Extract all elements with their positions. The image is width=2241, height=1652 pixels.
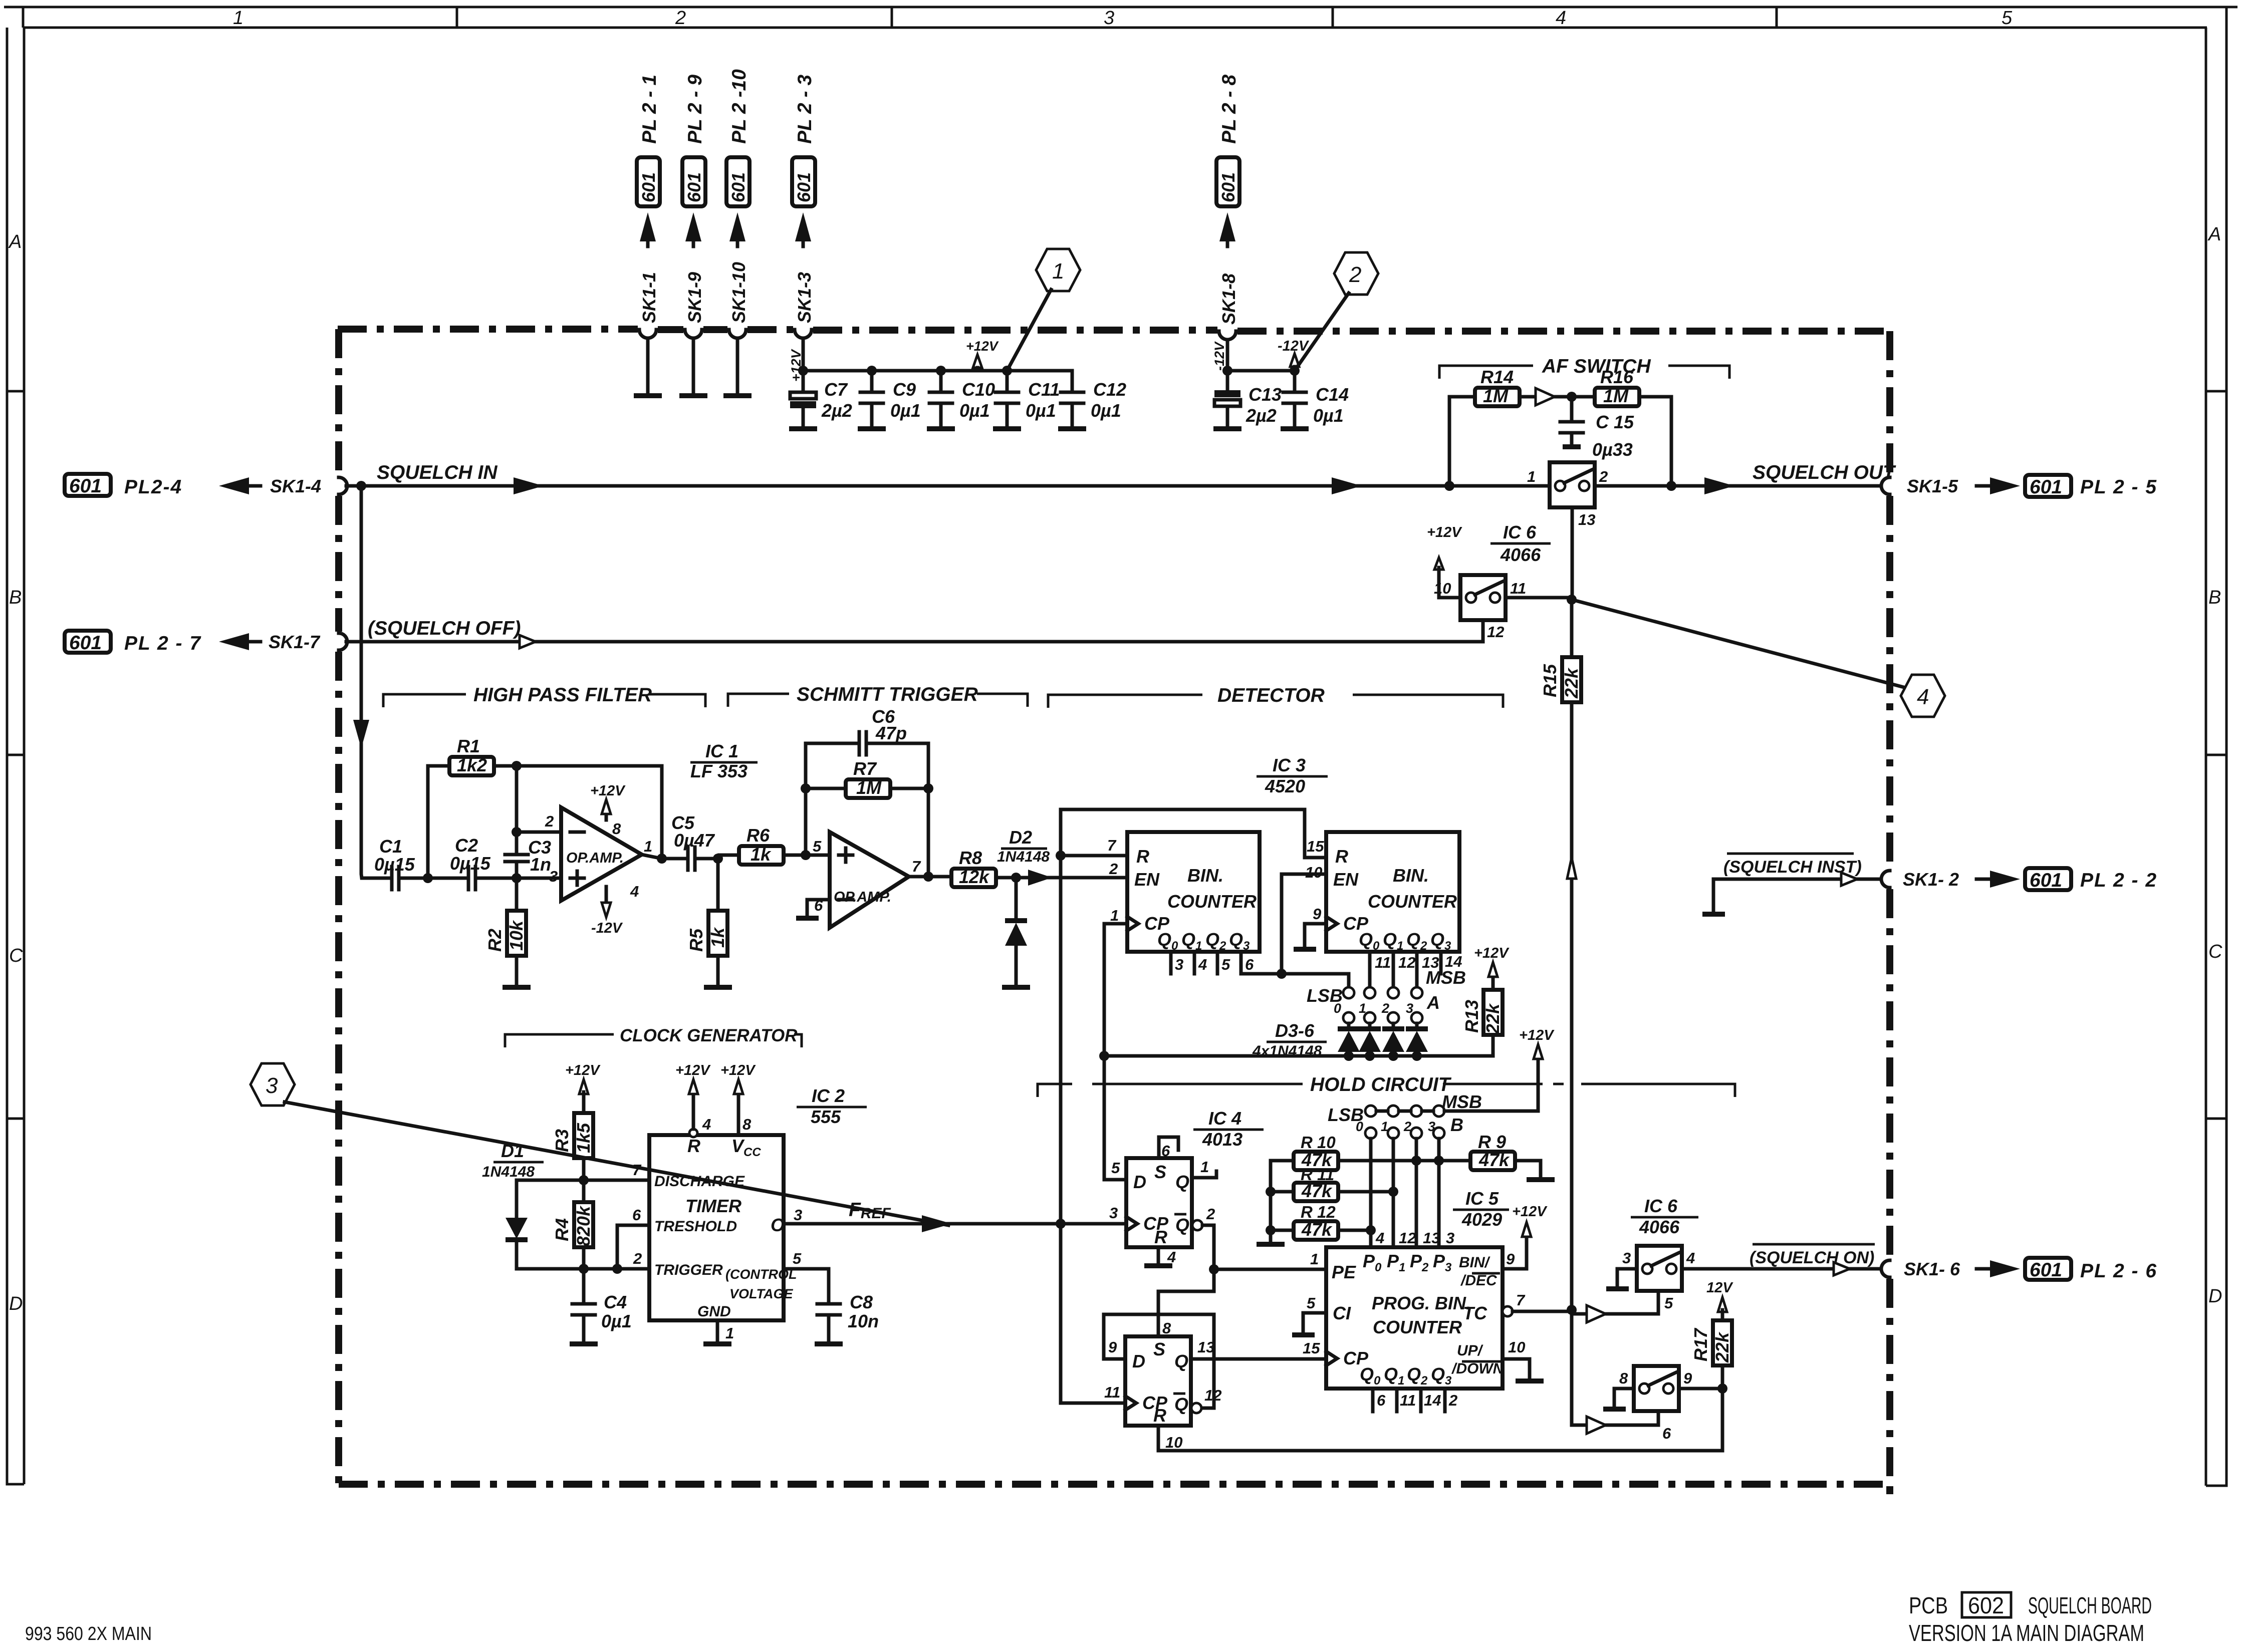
left row divider A/B: [7, 390, 24, 393]
svg-text:0µ1: 0µ1: [1091, 400, 1121, 421]
header divider col4: [1332, 7, 1334, 28]
wire R17 to pin9 node: [1721, 1365, 1724, 1389]
svg-text:R1: R1: [457, 736, 480, 756]
node schmitt +input: [801, 850, 811, 860]
svg-text:D2: D2: [1009, 827, 1032, 848]
wire pin7 to counter R: [1061, 854, 1127, 858]
arrow up PL2-8: [1219, 212, 1235, 241]
Q1 stub: [1192, 1171, 1216, 1178]
node D5 anode: [1388, 1051, 1398, 1061]
node C11 rail: [1002, 366, 1012, 376]
IC3b binary counter box: [1326, 832, 1459, 952]
svg-text:EN: EN: [1333, 869, 1359, 890]
svg-text:TRESHOLD: TRESHOLD: [654, 1218, 737, 1235]
analog switch IC6a box: [1550, 462, 1595, 507]
wire SK1-3 stub to +12V rail: [802, 338, 805, 371]
wire P3 vertical: [1437, 1139, 1441, 1247]
svg-text:SK1-8: SK1-8: [1218, 273, 1239, 325]
svg-text:4: 4: [1556, 8, 1566, 29]
connector SK1-7 bump: [339, 633, 347, 650]
svg-text:SQUELCH OUT: SQUELCH OUT: [1753, 462, 1896, 483]
ground C12: [1058, 426, 1086, 431]
resistor R9: [1470, 1152, 1515, 1170]
switch IC6c lever: [1651, 1253, 1679, 1266]
wire R7 leads: [806, 787, 928, 790]
board ref box 601 (PL2-7): [65, 631, 111, 653]
svg-text:3: 3: [1104, 8, 1114, 29]
svg-text:3: 3: [1622, 1249, 1631, 1267]
wire arrow to PL2-9: [692, 224, 695, 246]
node R7 right: [923, 783, 933, 793]
svg-text:IC 3: IC 3: [1273, 755, 1306, 775]
svg-text:SK1-7: SK1-7: [269, 632, 321, 652]
svg-text:4: 4: [630, 883, 639, 900]
svg-text:B: B: [9, 587, 22, 608]
node R pin7 branch: [1056, 851, 1066, 861]
svg-text:0µ1: 0µ1: [1026, 400, 1056, 421]
wire input node up to R1: [428, 766, 449, 878]
node trigger/treshold branch: [612, 1264, 622, 1274]
svg-text:0µ15: 0µ15: [450, 853, 491, 874]
ground SK1-10: [723, 393, 752, 398]
prog bin counter IC5 box: [1326, 1247, 1503, 1389]
buffer arrow (direction): [1536, 388, 1555, 405]
svg-text:4520: 4520: [1265, 776, 1305, 796]
power arrow +12V R3: [579, 1079, 588, 1094]
wire +input to opamp: [517, 877, 561, 880]
wire IC6c pin3 ground: [1617, 1269, 1637, 1287]
resistor R12: [1294, 1221, 1338, 1240]
svg-text:8: 8: [612, 820, 621, 838]
pcb boundary top edge: [338, 329, 1890, 331]
svg-text:1n: 1n: [530, 854, 551, 875]
svg-text:IC 6: IC 6: [1503, 522, 1537, 542]
svg-text:C: C: [2208, 941, 2222, 962]
wire treshold branch: [617, 1225, 649, 1269]
svg-text:12: 12: [1398, 954, 1415, 971]
svg-text:13: 13: [1423, 1229, 1440, 1247]
svg-text:6: 6: [1662, 1425, 1671, 1442]
svg-text:C10: C10: [962, 379, 995, 400]
svg-text:/DOWN: /DOWN: [1451, 1360, 1505, 1377]
svg-text:R: R: [1153, 1405, 1166, 1426]
wire P0 vertical: [1369, 1139, 1373, 1247]
svg-text:+12V: +12V: [1474, 945, 1510, 961]
svg-text:6: 6: [1245, 956, 1254, 973]
svg-text:IC 5: IC 5: [1465, 1188, 1499, 1209]
svg-text:EN: EN: [1134, 869, 1160, 890]
svg-text:S: S: [1154, 1162, 1166, 1182]
wire R12 row: [1271, 1229, 1371, 1232]
connector SK1-8 bump: [1219, 331, 1236, 340]
op-amp IC1b: [830, 832, 909, 928]
svg-text:R4: R4: [552, 1218, 572, 1241]
callout hexagon 1: [1036, 249, 1080, 291]
svg-text:SQUELCH BOARD: SQUELCH BOARD: [2028, 1592, 2152, 1618]
wire GND pin1: [716, 1320, 719, 1342]
svg-text:D: D: [1133, 1172, 1146, 1192]
ground C4: [570, 1341, 598, 1346]
arrow up PL2-3: [795, 212, 811, 241]
svg-text:DISCHARGE: DISCHARGE: [654, 1173, 745, 1190]
arrow right to PL2-6: [1976, 1267, 1991, 1271]
svg-text:555: 555: [811, 1107, 841, 1127]
wire P1 vertical: [1392, 1139, 1395, 1247]
ground rail: [1257, 1242, 1285, 1247]
capacitor C2: [468, 867, 517, 890]
board ref box 601 (PL2-8): [1216, 157, 1239, 206]
svg-text:0: 0: [1334, 1001, 1341, 1016]
svg-text:+12V: +12V: [590, 783, 626, 799]
wire SK1-1 stub to ground: [646, 338, 650, 394]
svg-text:C7: C7: [824, 379, 848, 400]
svg-text:C8: C8: [850, 1292, 873, 1312]
svg-text:R 9: R 9: [1478, 1132, 1506, 1152]
pin 4 -12V arrow: [605, 887, 608, 902]
diode D2: [1015, 878, 1018, 921]
connector SK1-9 bump: [685, 330, 702, 338]
resistor R8: [951, 869, 996, 887]
svg-text:13: 13: [1197, 1338, 1214, 1356]
svg-text:BIN.: BIN.: [1187, 865, 1223, 886]
node R17/pin9: [1717, 1384, 1727, 1394]
svg-text:R15: R15: [1540, 664, 1560, 697]
section bracket AF SWITCH: [1439, 366, 1729, 379]
arrow left PL2-4: [219, 477, 249, 494]
border top outer line: [4, 6, 2237, 9]
ground C10: [927, 426, 955, 431]
wire buffer to junction: [1555, 395, 1572, 399]
capacitor C7 (electrolytic): [802, 371, 805, 392]
svg-text:A: A: [1426, 992, 1440, 1013]
svg-text:4: 4: [702, 1116, 711, 1133]
resistor R4 (vertical): [582, 1180, 586, 1202]
left margin column outer: [7, 28, 24, 1484]
arrow right to PL2-2: [1976, 878, 1991, 881]
node C14 rail: [1290, 366, 1300, 376]
svg-text:SK1-9: SK1-9: [684, 272, 705, 323]
svg-text:B: B: [2208, 587, 2221, 608]
wire bus up to R13: [1491, 1035, 1495, 1056]
svg-text:47p: 47p: [875, 723, 907, 743]
svg-text:3: 3: [794, 1206, 802, 1224]
svg-text:9: 9: [1108, 1338, 1117, 1356]
wire R4 to trigger node: [582, 1247, 586, 1269]
svg-text:601: 601: [1218, 172, 1238, 202]
svg-text:R 10: R 10: [1301, 1133, 1336, 1152]
wire CP pin9 to ground: [1305, 924, 1326, 948]
wire FF2 D loop from Qbar12: [1104, 1314, 1214, 1408]
node TC junction: [1567, 1305, 1577, 1315]
wire hold link top line to +12V: [1376, 1058, 1538, 1111]
ground FF1 R: [1144, 1263, 1172, 1268]
wire Q3 to link 0: [1241, 952, 1349, 987]
svg-text:601: 601: [2030, 1259, 2062, 1281]
node R16 right to squelch line: [1666, 481, 1676, 491]
section bracket CLOCK GENERATOR: [505, 1034, 802, 1047]
callout line hex1 to +12V rail: [1007, 290, 1051, 371]
svg-text:C11: C11: [1028, 379, 1060, 400]
svg-text:6: 6: [1377, 1392, 1386, 1409]
wire SK1-8 stub to -12V rail: [1226, 340, 1229, 371]
svg-text:3: 3: [1175, 956, 1183, 973]
svg-text:14: 14: [1424, 1392, 1441, 1409]
switch IC6b contacts: [1466, 593, 1476, 603]
power arrow +12V pin4: [692, 1094, 695, 1129]
resistor R7: [846, 779, 890, 798]
svg-text:IC 6: IC 6: [1644, 1196, 1678, 1216]
svg-text:1k: 1k: [707, 927, 728, 948]
svg-text:8: 8: [1619, 1369, 1628, 1387]
svg-text:UP/: UP/: [1457, 1342, 1483, 1359]
wire reset top line: [1061, 809, 1326, 858]
wire reset vertical (to FREF net): [1061, 809, 1125, 1403]
connector SK1-2 bump: [1881, 871, 1890, 888]
wire pin10 to ground: [1503, 1359, 1530, 1380]
wire arrow to PL2-8: [1226, 224, 1229, 246]
wire output to R8: [909, 875, 951, 879]
board ref box 601 (PL2-4): [65, 474, 111, 496]
resistor R11: [1294, 1183, 1338, 1201]
wire CI to ground: [1303, 1313, 1326, 1333]
svg-text:7: 7: [1107, 837, 1117, 854]
node squelch-in junction: [356, 481, 366, 491]
wire +12V to IC6b pin10: [1439, 568, 1460, 598]
capacitor C5: [688, 847, 718, 870]
wire node down to FF2 S: [1158, 1269, 1214, 1336]
Qbar pin12 circle: [1191, 1403, 1201, 1413]
board ref box 601 (PL2-10): [726, 157, 750, 206]
wire R13 to +12V arrow: [1491, 977, 1495, 990]
svg-text:R7: R7: [853, 758, 877, 779]
connector SK1-1 bump: [639, 330, 656, 338]
svg-text:1M: 1M: [1483, 386, 1509, 406]
svg-text:+12V: +12V: [720, 1062, 756, 1078]
capacitor C1: [392, 867, 428, 890]
arrow up PL2-9: [685, 212, 701, 241]
wire -12V rail: [1227, 369, 1295, 373]
svg-text:+12V: +12V: [966, 339, 999, 354]
svg-text:C: C: [9, 945, 23, 966]
clock triangle IC4b: [1125, 1396, 1136, 1410]
switch IC6d contacts: [1639, 1384, 1649, 1394]
svg-text:15: 15: [1303, 1339, 1320, 1357]
svg-text:22k: 22k: [1561, 667, 1582, 699]
svg-text:SK1- 6: SK1- 6: [1904, 1259, 1960, 1279]
svg-text:C4: C4: [604, 1292, 627, 1312]
svg-text:PL 2 - 1: PL 2 - 1: [639, 75, 660, 144]
node opamp output: [657, 854, 667, 864]
svg-text:993 560 2X MAIN: 993 560 2X MAIN: [25, 1623, 152, 1644]
header divider col1: [22, 7, 25, 28]
left row divider C/D: [7, 1118, 24, 1120]
board ref box 601 (PL2-2): [2025, 868, 2071, 890]
diode D3: [1347, 1023, 1351, 1028]
wire pin13 down from IC6a: [1571, 507, 1574, 602]
ground pin10: [1516, 1379, 1544, 1384]
node R7 left: [801, 783, 811, 793]
wire arrow to PL2-10: [736, 224, 739, 246]
svg-text:0µ1: 0µ1: [890, 400, 921, 421]
resistor R14: [1475, 388, 1520, 406]
capacitor C9: [860, 371, 883, 427]
IC3a binary counter box: [1127, 832, 1260, 952]
svg-text:PCB: PCB: [1909, 1592, 1948, 1618]
wire pin9 to +12V: [1503, 1236, 1527, 1269]
svg-text:22k: 22k: [1482, 1003, 1503, 1034]
diode D5: [1392, 1023, 1395, 1028]
clock triangle IC5: [1326, 1351, 1337, 1365]
svg-text:Q: Q: [1174, 1394, 1188, 1415]
svg-text:C12: C12: [1093, 379, 1126, 400]
wire R10 row: [1271, 1159, 1470, 1163]
svg-text:4066: 4066: [1500, 544, 1541, 565]
svg-text:7: 7: [632, 1161, 642, 1179]
svg-text:R8: R8: [959, 848, 982, 868]
svg-text:5: 5: [1664, 1294, 1673, 1312]
switch IC6b lever: [1475, 582, 1503, 595]
ground squelch inst: [1702, 912, 1725, 917]
svg-text:PL 2 - 8: PL 2 - 8: [1218, 75, 1240, 144]
svg-text:D: D: [9, 1293, 23, 1314]
svg-text:5: 5: [2002, 8, 2013, 29]
section bracket HOLD CIRCUIT (dashed): [1038, 1084, 1735, 1097]
svg-text:9: 9: [1683, 1369, 1692, 1387]
ground pin6: [796, 916, 819, 921]
pin 8 +12V arrow: [605, 814, 608, 820]
arrow right squelch out: [1704, 477, 1734, 494]
svg-text:8: 8: [1162, 1319, 1171, 1337]
svg-text:HIGH PASS FILTER: HIGH PASS FILTER: [473, 684, 652, 706]
connector SK1-5 bump: [1881, 477, 1890, 494]
arrow right to PL2-5: [1976, 484, 1991, 488]
svg-text:11: 11: [1400, 1392, 1416, 1409]
pcb boundary right edge: [1886, 331, 1893, 1503]
arrow open squelch inst: [1841, 873, 1857, 886]
svg-text:GND: GND: [697, 1303, 731, 1320]
svg-text:BIN.: BIN.: [1393, 865, 1429, 886]
wire squelch inst: [1713, 878, 1881, 881]
svg-text:R 12: R 12: [1301, 1203, 1336, 1221]
svg-text:7: 7: [912, 858, 921, 875]
wire R11 row: [1271, 1190, 1393, 1194]
svg-text:1N4148: 1N4148: [482, 1164, 535, 1180]
wire squelch out segment: [1595, 484, 1881, 488]
wire R5 to ground: [716, 956, 720, 986]
node D4 anode: [1365, 1051, 1375, 1061]
svg-text:4: 4: [1917, 685, 1929, 709]
ground SK1-1: [634, 393, 662, 398]
board ref box 601 (PL2-6): [2025, 1258, 2071, 1280]
node C13 rail: [1222, 366, 1232, 376]
svg-text:1k2: 1k2: [457, 755, 487, 775]
wire pin6 to ground: [807, 900, 830, 917]
wire R14 to buffer: [1520, 395, 1536, 399]
left row divider B/C: [7, 754, 24, 756]
ground SK1-9: [679, 393, 707, 398]
node feedback top: [512, 761, 522, 771]
capacitor C10: [929, 371, 952, 427]
svg-text:12V: 12V: [1706, 1280, 1733, 1296]
wire SK1-9 stub to ground: [692, 338, 695, 394]
pcb boundary bottom edge: [339, 1484, 1890, 1503]
svg-text:3: 3: [266, 1073, 278, 1098]
svg-text:COUNTER: COUNTER: [1368, 891, 1457, 912]
right row divider B/C: [2206, 754, 2226, 756]
svg-text:PL2-4: PL2-4: [124, 476, 182, 498]
svg-text:-12V: -12V: [591, 920, 623, 936]
clock triangle IC4a: [1126, 1217, 1137, 1231]
svg-text:(SQUELCH OFF): (SQUELCH OFF): [368, 618, 521, 639]
switch IC6c contacts: [1642, 1264, 1652, 1274]
wire R15 down long vertical: [1570, 702, 1574, 1310]
svg-text:2µ2: 2µ2: [821, 400, 852, 421]
svg-text:5: 5: [1221, 956, 1230, 973]
power arrow +12V IC6b: [1434, 558, 1443, 570]
svg-text:R17: R17: [1690, 1327, 1711, 1361]
svg-text:C13: C13: [1249, 384, 1282, 405]
svg-text:4066: 4066: [1639, 1217, 1680, 1237]
capacitor C8: [817, 1304, 840, 1342]
svg-text:CI: CI: [1333, 1303, 1351, 1323]
ground C11: [993, 426, 1021, 431]
svg-text:TIMER: TIMER: [685, 1196, 741, 1216]
wire R9 right to ground: [1515, 1161, 1541, 1178]
right row divider C/D: [2206, 1118, 2226, 1120]
svg-text:1: 1: [1110, 907, 1119, 924]
node +input: [512, 873, 522, 883]
ground C8: [815, 1341, 843, 1346]
ground C9: [858, 426, 886, 431]
svg-text:OP.AMP.: OP.AMP.: [834, 889, 891, 905]
arrow down branch: [353, 720, 369, 748]
pcb boundary left edge: [335, 329, 342, 1484]
ground R2: [503, 985, 531, 990]
svg-text:2: 2: [675, 8, 686, 29]
svg-text:12: 12: [1204, 1387, 1221, 1404]
timer IC2 box: [649, 1135, 784, 1320]
buffer arrow (pin5): [1587, 1305, 1606, 1322]
svg-text:1M: 1M: [1603, 386, 1629, 406]
analog switch IC6d box: [1634, 1366, 1679, 1411]
svg-text:12: 12: [1399, 1229, 1416, 1247]
arrow right squelch mid: [1332, 477, 1362, 494]
ground 555: [703, 1341, 731, 1346]
svg-text:2: 2: [1206, 1205, 1215, 1223]
header divider col3: [891, 7, 893, 28]
svg-text:2: 2: [1109, 860, 1118, 878]
wire 12V to R17: [1721, 1310, 1724, 1320]
power arrow +12V pin8: [737, 1094, 740, 1135]
resistor R10: [1294, 1152, 1338, 1170]
svg-text:601: 601: [69, 475, 102, 497]
wire bus to FF1 D: [1104, 1056, 1126, 1180]
link bottom circles (detector): [1343, 1012, 1354, 1023]
svg-text:4: 4: [1167, 1248, 1176, 1266]
wire R3 to discharge node: [582, 1158, 586, 1180]
power arrow -12V rail: [1290, 354, 1299, 367]
flip-flop IC4b box: [1125, 1336, 1191, 1426]
connector SK1-10 bump: [729, 330, 746, 338]
wire R8 to D2 node: [996, 876, 1016, 880]
callout hexagon 4: [1901, 675, 1945, 717]
svg-text:2: 2: [1349, 262, 1361, 287]
node R10/P2: [1411, 1156, 1421, 1166]
svg-text:1: 1: [1052, 259, 1064, 284]
svg-text:601: 601: [794, 172, 814, 202]
wire node to EN with arrow: [1016, 876, 1127, 880]
svg-text:22k: 22k: [1712, 1331, 1732, 1363]
